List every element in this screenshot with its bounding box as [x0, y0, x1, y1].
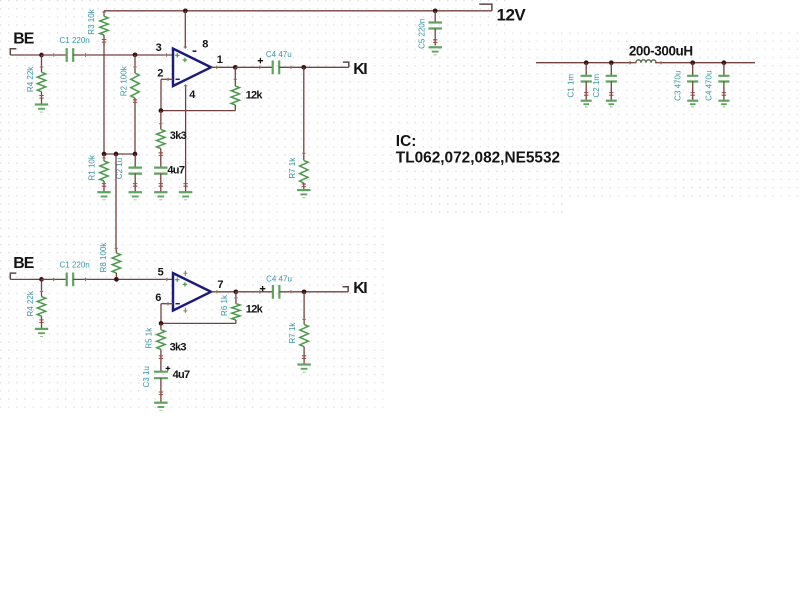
junction C1 filter	[584, 60, 589, 65]
label C4 47u (1)	[266, 50, 292, 59]
capacitor C1 220n (2)	[67, 273, 74, 287]
svg-text:TL062,072,082,NE5532: TL062,072,082,NE5532	[396, 149, 560, 166]
label C1 1m filter	[567, 74, 576, 98]
svg-text:12k: 12k	[246, 90, 264, 102]
pin 6 label	[155, 292, 161, 304]
opamp1 minus mark	[176, 78, 180, 80]
svg-text:3k3: 3k3	[170, 130, 187, 142]
svg-text:C5 220n: C5 220n	[417, 19, 426, 49]
label R7 1k (1)	[288, 157, 297, 179]
wire filter rail left	[536, 61, 632, 64]
wire output 1	[211, 66, 235, 69]
svg-text:C1 220n: C1 220n	[60, 36, 90, 45]
svg-text:12k: 12k	[246, 303, 264, 315]
node input 1	[39, 53, 44, 58]
svg-text:200-300uH: 200-300uH	[629, 44, 693, 59]
ground C3	[154, 403, 167, 411]
svg-text:R5 1k: R5 1k	[144, 327, 153, 349]
svg-text:KI: KI	[353, 61, 367, 78]
label R1 10k	[88, 154, 97, 180]
junction C3 filter	[690, 60, 695, 65]
capacitor C4 470u filter	[718, 63, 729, 101]
label C2 1u	[115, 158, 124, 179]
capacitor C1 220n (1)	[67, 48, 74, 62]
opamp2 minus mark	[176, 303, 180, 305]
plus C4 (1)	[258, 58, 263, 63]
ground R1	[97, 192, 110, 200]
opamp2 bottom power stub	[183, 308, 187, 313]
net label KI 2	[353, 280, 367, 297]
svg-text:8: 8	[202, 39, 208, 51]
capacitor C1 1m filter	[581, 63, 592, 101]
svg-text:C1 220n: C1 220n	[60, 261, 90, 270]
resistor R7 1k (2)	[300, 292, 308, 365]
wire C4 to KI (1)	[279, 66, 349, 69]
svg-text:R6 1k: R6 1k	[220, 294, 229, 316]
wire pin8 power	[184, 11, 187, 49]
capacitor C4 47u (1)	[273, 60, 280, 74]
junction out 2	[234, 289, 239, 294]
ground R4 (1)	[35, 105, 48, 113]
label 200-300uH	[629, 44, 693, 59]
label R7 1k (2)	[288, 322, 297, 344]
capacitor C2 1u	[128, 154, 142, 192]
wire bias rail	[104, 153, 135, 155]
wire out to C4 (1)	[235, 66, 272, 69]
pin 2 label	[157, 67, 163, 79]
junction pin8 rail	[183, 8, 188, 13]
svg-text:C4 47u: C4 47u	[266, 50, 292, 59]
svg-text:R2 100k: R2 100k	[120, 65, 129, 96]
resistor R6 1k	[232, 292, 240, 324]
label C2 1m filter	[592, 74, 601, 98]
svg-text:5: 5	[158, 267, 164, 279]
pin 8 label	[202, 39, 208, 51]
wire pin6 feedback	[161, 302, 173, 323]
grid dots area middle2	[512, 28, 568, 218]
label R6 1k	[220, 294, 229, 316]
wire filter rail right	[659, 61, 755, 64]
pin 1 label	[217, 54, 223, 66]
wire pin2 feedback	[161, 78, 173, 111]
plus C4 (2)	[260, 286, 265, 291]
capacitor 4u7 (1)	[154, 168, 168, 193]
plus C3	[166, 366, 171, 371]
resistor R1 10k	[100, 154, 108, 192]
ground pin4	[179, 192, 192, 200]
junction bias R2	[133, 152, 138, 157]
svg-text:R1 10k: R1 10k	[88, 154, 97, 180]
label C3 1u	[142, 366, 151, 387]
resistor 3k3 (1)	[157, 111, 165, 168]
wire node to C1 (1)	[42, 53, 67, 56]
capacitor C3 470u filter	[687, 63, 698, 101]
op-amp U1B	[173, 273, 211, 310]
svg-text:R4 22k: R4 22k	[26, 290, 35, 316]
junction C2 filter	[609, 60, 614, 65]
label C3 470u filter	[673, 71, 682, 101]
pin 7 label	[217, 279, 223, 291]
net label BE 1	[13, 31, 34, 48]
svg-text:R8 100k: R8 100k	[99, 242, 108, 273]
svg-text:C4 470u: C4 470u	[705, 71, 714, 101]
resistor 12k (1)	[231, 67, 239, 110]
junction out 1	[233, 65, 238, 70]
capacitor C3 1u 4u7	[154, 372, 168, 403]
junction KI 1	[301, 65, 306, 70]
wire C1 to opamp (1)	[73, 53, 173, 56]
terminal 12V	[479, 4, 492, 11]
svg-text:C2 1m: C2 1m	[592, 74, 601, 98]
ground C2 filter	[606, 101, 617, 107]
label 12k (1)	[246, 90, 264, 102]
ground C5	[429, 47, 442, 55]
pin 3 label	[156, 42, 162, 54]
svg-text:BE: BE	[13, 31, 34, 48]
ground C1 filter	[581, 101, 592, 107]
svg-text:BE: BE	[13, 255, 34, 272]
wire node to C1 (2)	[42, 278, 67, 281]
wire C4 to KI (2)	[279, 290, 348, 293]
node input 2	[39, 277, 44, 282]
text IC list	[396, 149, 560, 166]
resistor R2 100k	[131, 55, 139, 154]
junction feedback 1	[159, 108, 164, 113]
inductor 200-300uH	[630, 60, 661, 63]
svg-text:6: 6	[155, 292, 161, 304]
wire output 2	[211, 290, 236, 293]
resistor R5 1k 3k3	[157, 323, 165, 371]
svg-text:3k3: 3k3	[170, 342, 187, 354]
opamp1 plus mark b	[183, 58, 187, 62]
label C4 47u (2)	[266, 275, 292, 284]
svg-text:4: 4	[189, 89, 196, 101]
terminal KI 2	[343, 287, 349, 292]
wire 12V top rail	[104, 10, 492, 12]
svg-text:C3 470u: C3 470u	[673, 71, 682, 101]
junction feedback 2	[159, 321, 164, 326]
junction R8 input	[114, 277, 119, 282]
resistor R8 100k	[112, 247, 120, 280]
label 3k3 (1)	[170, 130, 187, 142]
terminal KI 1	[343, 62, 349, 67]
junction C4 filter	[722, 60, 727, 65]
svg-text:KI: KI	[353, 280, 367, 297]
grid dots area middle	[390, 0, 512, 218]
label C1 220n (1)	[60, 36, 90, 45]
junction R2 top	[133, 52, 138, 57]
label R3 10k	[87, 8, 96, 34]
wire feedback rail 2	[161, 322, 236, 324]
svg-text:R4 22k: R4 22k	[26, 66, 35, 92]
label C5 220n	[417, 19, 426, 49]
svg-text:C1 1m: C1 1m	[567, 74, 576, 98]
ground R4 (2)	[35, 329, 48, 337]
svg-text:C3 1u: C3 1u	[142, 366, 151, 387]
label R4 22k (2)	[26, 290, 35, 316]
svg-text:3: 3	[156, 42, 162, 54]
opamp2 top power stub	[183, 271, 187, 276]
label C4 470u filter	[705, 71, 714, 101]
resistor R3 10k	[100, 11, 108, 154]
ground 4u7 (1)	[154, 192, 167, 200]
junction C5 rail	[433, 8, 438, 13]
net label 12V	[497, 5, 527, 24]
ground R7 (1)	[297, 190, 310, 198]
capacitor C2 1m filter	[606, 63, 617, 101]
svg-text:2: 2	[157, 67, 163, 79]
label 4u7 (1)	[167, 164, 184, 176]
wire C1 to opamp (2)	[73, 278, 173, 281]
wire out to C4 (2)	[236, 290, 273, 293]
svg-text:C4 47u: C4 47u	[266, 275, 292, 284]
text IC:	[396, 133, 417, 150]
label C1 220n (2)	[60, 261, 90, 270]
svg-text:R3 10k: R3 10k	[87, 8, 96, 34]
label R2 100k	[120, 65, 129, 96]
wire BE to node 1	[10, 54, 41, 56]
label R8 100k	[99, 242, 108, 273]
resistor R4 22k (2)	[37, 279, 45, 329]
ground R7 (2)	[297, 365, 310, 373]
wire pin4 gnd	[183, 84, 187, 192]
wire BE to node 2	[10, 278, 41, 280]
junction bias mid	[114, 152, 119, 157]
svg-text:R7 1k: R7 1k	[288, 322, 297, 344]
opamp2 plus mark a	[175, 278, 179, 282]
junction KI 2	[302, 289, 307, 294]
svg-text:4u7: 4u7	[167, 164, 184, 176]
svg-text:1: 1	[217, 54, 223, 66]
svg-text:7: 7	[217, 279, 223, 291]
wire bias to stage2	[115, 154, 117, 248]
net label BE 2	[13, 255, 34, 272]
grid dots area main	[0, 0, 390, 409]
pin 4 label	[189, 89, 196, 101]
pin 8 dash	[193, 50, 197, 52]
svg-text:4u7: 4u7	[173, 369, 190, 381]
opamp1 plus mark a	[175, 53, 179, 57]
junction bias R1	[102, 152, 107, 157]
svg-text:R7 1k: R7 1k	[288, 157, 297, 179]
svg-text:12V: 12V	[497, 5, 527, 24]
resistor R7 1k (1)	[300, 67, 308, 190]
svg-text:IC:: IC:	[396, 133, 417, 150]
wire feedback rail 1	[161, 110, 235, 112]
resistor R4 22k (1)	[37, 55, 45, 105]
opamp2 plus mark b	[183, 282, 187, 286]
ground C3 filter	[687, 101, 698, 107]
terminal BE input 2	[10, 273, 16, 279]
capacitor C4 47u (2)	[273, 285, 280, 299]
op-amp U1A	[173, 49, 211, 86]
label R4 22k (1)	[26, 66, 35, 92]
label 4u7 (2)	[173, 369, 190, 381]
label 3k3 (2)	[170, 342, 187, 354]
grid dots area right	[568, 28, 800, 197]
label 12k (2)	[246, 303, 264, 315]
capacitor C5 220n	[428, 11, 442, 46]
ground C4 filter	[718, 101, 729, 107]
label R5 1k	[144, 327, 153, 349]
ground C2	[129, 192, 142, 200]
net label KI 1	[353, 61, 367, 78]
terminal BE input 1	[10, 49, 16, 55]
pin 5 label	[158, 267, 164, 279]
